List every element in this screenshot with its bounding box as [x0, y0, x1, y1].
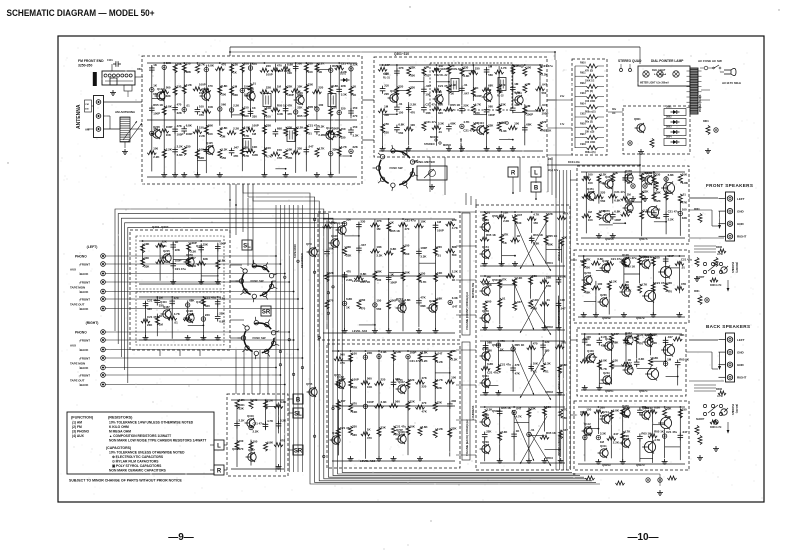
svg-text:STEREO IND: STEREO IND [461, 138, 463, 152]
svg-text:220: 220 [205, 313, 210, 317]
svg-text:22K: 22K [410, 65, 416, 69]
svg-text:3250-350: 3250-350 [78, 64, 92, 68]
svg-text:TAPE OUT: TAPE OUT [70, 379, 85, 383]
svg-text:VR503: VR503 [545, 390, 553, 394]
svg-text:560: 560 [166, 86, 171, 90]
svg-text:22K: 22K [147, 323, 153, 327]
svg-text:C06 100K: C06 100K [585, 101, 596, 103]
svg-text:Q430: Q430 [587, 349, 594, 353]
svg-text:Q60A: Q60A [583, 175, 590, 179]
svg-text:1M: 1M [627, 192, 632, 196]
svg-text:2.2K: 2.2K [668, 218, 675, 222]
svg-text:GND: GND [737, 350, 745, 354]
svg-text:6.8K: 6.8K [221, 84, 228, 88]
label muting vertical [471, 282, 475, 420]
svg-text:.047: .047 [437, 352, 443, 356]
svg-text:470: 470 [277, 64, 282, 68]
svg-text:VOLUME (BACK) 100KΩ(A)x2: VOLUME (BACK) 100KΩ(A)x2 [465, 419, 469, 456]
svg-text:330: 330 [166, 94, 171, 98]
junction letter R [508, 167, 518, 194]
svg-text:2.2K: 2.2K [410, 102, 417, 106]
svg-text:4.7K: 4.7K [452, 226, 459, 230]
svg-text:.01: .01 [425, 74, 429, 78]
svg-text:2.2K: 2.2K [318, 61, 325, 65]
svg-text:560: 560 [487, 299, 492, 303]
svg-text:470: 470 [367, 436, 372, 440]
svg-text:6.8K: 6.8K [390, 247, 397, 251]
svg-text:R438 A 7Ω: R438 A 7Ω [710, 426, 722, 429]
svg-text:330: 330 [233, 93, 238, 97]
svg-text:Q226: Q226 [153, 125, 160, 129]
svg-text:10% TOLERANCE 1/4W UNLESS OT: 10% TOLERANCE 1/4W UNLESS OTHERWISE NOTE… [109, 421, 194, 425]
svg-text:6.8K: 6.8K [219, 320, 226, 324]
svg-text:100P: 100P [475, 94, 482, 98]
below amp D parts [573, 473, 663, 495]
svg-text:RL-32: RL-32 [497, 95, 504, 98]
svg-text:2.2K: 2.2K [297, 125, 304, 129]
svg-text:47K: 47K [244, 134, 250, 138]
power amp circuitry D [578, 404, 688, 464]
svg-text:100: 100 [239, 439, 244, 443]
svg-text:47K: 47K [682, 201, 688, 205]
svg-text:68K: 68K [208, 124, 214, 128]
svg-text:Q404: Q404 [477, 121, 484, 125]
svg-text:6.8K: 6.8K [267, 441, 274, 445]
svg-text:C21 47u: C21 47u [175, 267, 186, 271]
svg-text:.047: .047 [340, 399, 346, 403]
svg-text:Q114: Q114 [157, 87, 164, 91]
svg-text:Q60D: Q60D [580, 410, 587, 414]
ladder resistors R910-918 [572, 59, 607, 155]
svg-text:10K: 10K [425, 111, 431, 115]
svg-text:.01: .01 [252, 82, 256, 86]
svg-text:.047: .047 [308, 145, 314, 149]
output transistor Q607D [642, 417, 671, 454]
outer border frame [58, 36, 764, 502]
svg-text:C21 47u: C21 47u [395, 424, 406, 428]
svg-text:470: 470 [515, 363, 520, 367]
svg-text:47K: 47K [376, 219, 382, 223]
svg-text:Q404: Q404 [196, 300, 203, 304]
MPX decoder circuitry [378, 63, 553, 151]
svg-text:Q225: Q225 [163, 249, 170, 253]
svg-text:6.8K: 6.8K [668, 173, 675, 177]
svg-text:33K: 33K [501, 103, 507, 107]
back phones jack [696, 388, 739, 434]
svg-text:AUX: AUX [70, 344, 76, 348]
svg-text:R914: R914 [580, 102, 586, 105]
svg-text:47K: 47K [422, 376, 428, 380]
svg-text:SHORT: SHORT [696, 418, 705, 421]
filter caps [628, 178, 658, 201]
svg-text:330: 330 [346, 218, 351, 222]
svg-text:(LEFT): (LEFT) [87, 245, 98, 249]
svg-text:C21 47u: C21 47u [542, 64, 553, 68]
svg-text:DC24-43v: DC24-43v [568, 160, 580, 164]
svg-text:100: 100 [560, 298, 565, 302]
svg-text:Q703: Q703 [330, 221, 337, 225]
svg-text:100: 100 [410, 74, 415, 78]
svg-text:100P: 100P [177, 132, 184, 136]
back speaker terminals [706, 324, 750, 382]
svg-text:TAPE OUT: TAPE OUT [70, 303, 85, 307]
svg-text:Q604B: Q604B [644, 255, 653, 259]
svg-text:1M: 1M [159, 323, 164, 327]
svg-text:560: 560 [395, 399, 400, 403]
power amp circuitry C [580, 331, 690, 390]
junction letter B [531, 182, 541, 200]
svg-text:150: 150 [233, 62, 238, 66]
right edge chains [694, 246, 719, 451]
svg-text:22K: 22K [341, 84, 347, 88]
svg-text:2.2K: 2.2K [395, 350, 402, 354]
svg-text:470: 470 [500, 339, 505, 343]
svg-text:LEFT: LEFT [737, 338, 745, 342]
svg-text:AM: AM [85, 128, 90, 132]
svg-text:220: 220 [266, 64, 271, 68]
svg-text:470: 470 [353, 114, 358, 118]
svg-text:10K: 10K [297, 84, 303, 88]
svg-text:D101: D101 [340, 73, 347, 76]
svg-text:47K: 47K [177, 124, 183, 128]
svg-text:6.8K: 6.8K [422, 425, 429, 429]
svg-text:150: 150 [353, 106, 358, 110]
label VR500C rotated [558, 368, 561, 390]
label Q901 [232, 403, 245, 451]
svg-text:6.8K: 6.8K [287, 62, 294, 66]
svg-text:.01: .01 [545, 370, 549, 374]
svg-text:100P: 100P [153, 111, 160, 115]
svg-text:LEFT: LEFT [737, 197, 745, 201]
svg-text:330: 330 [352, 424, 357, 428]
svg-text:C21 47u: C21 47u [410, 359, 421, 363]
svg-text:▲ COMPOSITION RESISTORS 1/: ▲ COMPOSITION RESISTORS 1/2WATT [109, 434, 171, 438]
svg-text:2.2K: 2.2K [452, 270, 459, 274]
svg-text:2.2K: 2.2K [267, 399, 274, 403]
svg-text:Q470: Q470 [622, 404, 629, 408]
svg-text:C21 47u: C21 47u [405, 219, 416, 223]
svg-text:22K: 22K [548, 212, 554, 216]
stereo indicator lamps [620, 64, 632, 72]
svg-text:Q265: Q265 [600, 293, 607, 297]
svg-text:Q258: Q258 [622, 283, 629, 287]
svg-text:SL: SL [243, 243, 251, 249]
svg-text:150: 150 [277, 148, 282, 152]
svg-text:22K: 22K [451, 349, 457, 353]
svg-text:SR: SR [262, 309, 271, 315]
wire ladder left [547, 94, 572, 161]
svg-text:GND: GND [737, 209, 745, 213]
svg-text:.01: .01 [308, 132, 312, 136]
svg-text:6.8K: 6.8K [346, 297, 353, 301]
svg-text:K KILO OHM: K KILO OHM [109, 425, 129, 429]
svg-text:MONO: MONO [443, 143, 451, 147]
svg-text:150: 150 [398, 110, 403, 114]
svg-text:3.3K: 3.3K [219, 297, 226, 301]
speaker wires front [689, 198, 724, 238]
svg-text:(BACK): (BACK) [735, 404, 739, 413]
svg-text:330: 330 [341, 136, 346, 140]
svg-text:.01: .01 [398, 102, 402, 106]
svg-text:100: 100 [588, 181, 593, 185]
svg-text:(4) AUX: (4) AUX [72, 434, 85, 438]
svg-text:R05 1K: R05 1K [390, 229, 401, 233]
power regulator block outline [623, 106, 690, 154]
svg-text:6.8K: 6.8K [332, 84, 339, 88]
socket wires [230, 265, 276, 338]
svg-text:Q214: Q214 [602, 410, 609, 414]
svg-text:Q401~Q404: Q401~Q404 [152, 225, 169, 229]
svg-text:NON MARK LOW NOISE TYPE CARBON: NON MARK LOW NOISE TYPE CARBON RESISTORS… [109, 439, 206, 443]
svg-text:3.3K: 3.3K [463, 74, 470, 78]
svg-text:22K: 22K [451, 427, 457, 431]
svg-text:4.7K: 4.7K [420, 280, 427, 284]
label Q605C [583, 333, 656, 393]
output transistor Q607C [645, 344, 674, 381]
svg-text:Q403: Q403 [160, 300, 167, 304]
svg-text:10K: 10K [410, 424, 416, 428]
label VR500A rotated [558, 239, 561, 261]
IF transformer T101 [263, 94, 271, 107]
svg-text:100P: 100P [390, 281, 397, 285]
tone control circuitry upper [323, 218, 459, 334]
power transformer T801 [687, 68, 703, 114]
phono preamp right circuitry [139, 295, 226, 340]
svg-text:560: 560 [452, 253, 457, 257]
svg-text:R: R [217, 468, 222, 474]
svg-text:Q501D: Q501D [492, 409, 501, 413]
svg-text:SL: SL [294, 411, 302, 417]
svg-text:MODE: MODE [430, 135, 439, 139]
svg-text:22K: 22K [410, 400, 416, 404]
svg-text:TAPE MON: TAPE MON [70, 362, 85, 366]
label T301 [383, 73, 391, 80]
svg-text:100: 100 [526, 66, 531, 70]
svg-text:FRONT SPEAKERS: FRONT SPEAKERS [706, 183, 753, 188]
svg-text:Q134: Q134 [605, 337, 612, 341]
svg-text:.047: .047 [516, 406, 522, 410]
front phones jack [696, 246, 739, 292]
svg-text:47K: 47K [277, 156, 283, 160]
svg-text:4.7K: 4.7K [199, 63, 206, 67]
svg-text:6.8K: 6.8K [601, 359, 608, 363]
FM front end tuning gang [95, 59, 143, 97]
svg-text:D804: D804 [666, 136, 672, 139]
svg-text:R486: R486 [716, 388, 723, 391]
svg-text:R08a c(S): R08a c(S) [585, 111, 596, 113]
svg-text:560: 560 [532, 274, 537, 278]
svg-text:3.3K: 3.3K [638, 357, 645, 361]
svg-text:470: 470 [410, 111, 415, 115]
svg-text:330: 330 [360, 219, 365, 223]
svg-text:560: 560 [205, 304, 210, 308]
power amp circuitry B [578, 253, 692, 317]
svg-text:R910: R910 [580, 62, 586, 65]
svg-text:C21 47u: C21 47u [205, 296, 216, 300]
label Q501B [492, 278, 553, 329]
svg-text:470: 470 [346, 270, 351, 274]
svg-text:33K: 33K [199, 156, 205, 160]
svg-text:6.8K: 6.8K [398, 123, 405, 127]
svg-text:560: 560 [488, 105, 493, 109]
svg-text:22K: 22K [643, 189, 649, 193]
input wires to switch bus [106, 255, 304, 385]
svg-text:150: 150 [186, 62, 191, 66]
detector diode D101 [340, 73, 350, 83]
svg-text:Q465: Q465 [482, 347, 489, 351]
svg-text:LEVEL ADJ: LEVEL ADJ [352, 329, 368, 333]
svg-text:LEVEL ADJ: LEVEL ADJ [352, 279, 368, 283]
svg-text:47K: 47K [398, 66, 404, 70]
svg-text:6.8K: 6.8K [652, 356, 659, 360]
svg-text:▣ POLY STYROL CAPACITORS: ▣ POLY STYROL CAPACITORS [112, 464, 162, 468]
svg-text:100: 100 [153, 147, 158, 151]
svg-text:C21 47u: C21 47u [655, 281, 666, 285]
svg-text:47K: 47K [503, 233, 509, 237]
svg-text:AC FUSE AC SW: AC FUSE AC SW [698, 59, 722, 63]
svg-text:4.7K: 4.7K [437, 378, 444, 382]
svg-text:10K: 10K [144, 242, 150, 246]
switch harness vertical wires [276, 205, 302, 472]
svg-text:100: 100 [655, 255, 660, 259]
MPX coil T303 [497, 78, 506, 98]
svg-text:C21 47u: C21 47u [668, 209, 679, 213]
svg-text:470: 470 [422, 401, 427, 405]
svg-text:—10—: —10— [627, 532, 658, 543]
svg-text:150: 150 [199, 125, 204, 129]
svg-text:21v: 21v [560, 94, 565, 98]
svg-text:100P: 100P [352, 377, 359, 381]
svg-text:.047: .047 [667, 335, 673, 339]
svg-text:68K: 68K [450, 122, 456, 126]
svg-text:33K: 33K [266, 123, 272, 127]
svg-text:.047: .047 [360, 243, 366, 247]
svg-text:Q605D: Q605D [602, 463, 611, 467]
svg-text:Q501B: Q501B [492, 278, 501, 282]
svg-text:3.3K: 3.3K [277, 112, 284, 116]
svg-text:10K: 10K [252, 145, 258, 149]
svg-text:Q278: Q278 [584, 271, 591, 275]
svg-text:⊕ ELECTROLYTIC CAPACITORS: ⊕ ELECTROLYTIC CAPACITORS [112, 455, 164, 459]
svg-text:2.2K: 2.2K [542, 73, 549, 77]
svg-text:Q462: Q462 [332, 431, 339, 435]
svg-text:2.2K: 2.2K [239, 398, 246, 402]
svg-text:330: 330 [438, 111, 443, 115]
svg-text:Q154: Q154 [482, 245, 489, 249]
svg-text:100: 100 [352, 351, 357, 355]
svg-text:22K: 22K [503, 211, 509, 215]
svg-text:Q604D: Q604D [644, 406, 653, 410]
svg-text:330: 330 [545, 348, 550, 352]
svg-text:68K: 68K [277, 127, 283, 131]
svg-text:4.7K: 4.7K [641, 282, 648, 286]
svg-text:100P: 100P [437, 229, 444, 233]
svg-text:220: 220 [452, 218, 457, 222]
AC plug [720, 68, 736, 75]
svg-text:560: 560 [367, 377, 372, 381]
svg-text:330: 330 [517, 221, 522, 225]
svg-text:68K: 68K [437, 297, 443, 301]
svg-text:┌FRONT: ┌FRONT [78, 357, 90, 361]
svg-text:.047: .047 [233, 146, 239, 150]
tone to volume wires [456, 180, 577, 455]
svg-text:100P: 100P [332, 126, 339, 130]
svg-text:10K: 10K [367, 385, 373, 389]
svg-text:1M: 1M [487, 275, 492, 279]
svg-text:100: 100 [253, 440, 258, 444]
svg-text:6.8K: 6.8K [614, 198, 621, 202]
svg-text:10K: 10K [679, 333, 685, 337]
volume/tone network C [480, 339, 569, 395]
svg-text:LOUDNESS: LOUDNESS [471, 405, 475, 420]
svg-text:└BACK: └BACK [78, 366, 89, 370]
svg-text:Q607D: Q607D [636, 463, 645, 467]
svg-text:47K: 47K [681, 282, 687, 286]
svg-text:100: 100 [667, 281, 672, 285]
svg-text:R05 1K: R05 1K [679, 357, 690, 361]
svg-text:└BACK: └BACK [78, 307, 89, 311]
svg-text:100: 100 [376, 278, 381, 282]
svg-text:470: 470 [239, 447, 244, 451]
svg-text:A 7Ω: A 7Ω [717, 253, 723, 256]
muting wires [210, 399, 293, 470]
svg-text:R661: R661 [694, 291, 700, 293]
svg-text:100P: 100P [420, 246, 427, 250]
svg-text:R05 1K: R05 1K [450, 103, 461, 107]
svg-text:Q902: Q902 [232, 447, 239, 451]
svg-text:2.2K: 2.2K [437, 427, 444, 431]
svg-text:R05 1K: R05 1K [486, 233, 497, 237]
svg-text:330: 330 [177, 85, 182, 89]
tone control block outline (right channels) [327, 344, 460, 468]
svg-text:22K: 22K [488, 124, 494, 128]
svg-text:R05 1K: R05 1K [501, 406, 512, 410]
svg-text:330: 330 [253, 398, 258, 402]
svg-text:22K: 22K [177, 111, 183, 115]
svg-text:DIAL LIGHT: DIAL LIGHT [652, 69, 666, 72]
svg-text:(CAPACITORS): (CAPACITORS) [106, 446, 131, 450]
svg-text:AUX: AUX [70, 268, 76, 272]
svg-text:22K: 22K [353, 145, 359, 149]
svg-text:47K: 47K [563, 211, 569, 215]
svg-text:2.2K: 2.2K [532, 298, 539, 302]
label T103 145E [276, 69, 291, 73]
svg-text:┌FRONT: ┌FRONT [78, 298, 90, 302]
svg-text:3.3K: 3.3K [353, 133, 360, 137]
svg-text:150: 150 [533, 221, 538, 225]
svg-text:R917: R917 [580, 133, 586, 136]
svg-text:┌FRONT: ┌FRONT [78, 339, 90, 343]
svg-text:47K: 47K [352, 386, 358, 390]
phono preamp left circuitry [139, 239, 226, 284]
svg-text:220: 220 [410, 378, 415, 382]
svg-text:┌FRONT: ┌FRONT [78, 281, 90, 285]
svg-text:Q370: Q370 [603, 209, 610, 213]
svg-text:6.8K: 6.8K [360, 272, 367, 276]
MPX decoder block outline Q301-310 [374, 52, 547, 157]
label AC117V [722, 81, 742, 85]
svg-text:100: 100 [585, 266, 590, 270]
svg-text:Q119: Q119 [435, 90, 442, 94]
svg-text:L: L [534, 170, 538, 176]
svg-text:Q60B: Q60B [580, 259, 587, 263]
svg-text:4.7K: 4.7K [463, 120, 470, 124]
svg-text:Q324: Q324 [625, 199, 632, 203]
svg-text:220: 220 [398, 85, 403, 89]
svg-text:100P: 100P [166, 125, 173, 129]
svg-text:└BACK: └BACK [78, 272, 89, 276]
svg-text:A 7Ω: A 7Ω [717, 395, 723, 398]
